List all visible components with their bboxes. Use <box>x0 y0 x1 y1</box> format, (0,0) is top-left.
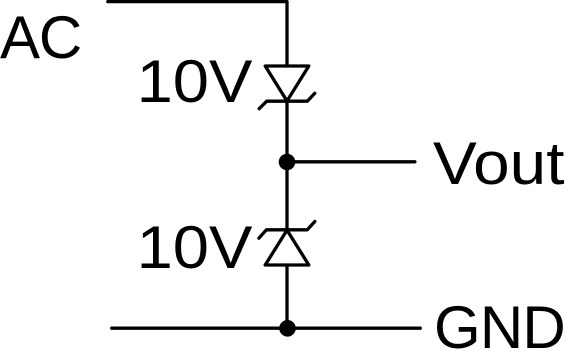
node A junction dot (Vout node) <box>279 154 296 171</box>
node B junction dot (ground node) <box>279 320 296 337</box>
wire ground rail GND <box>112 327 421 330</box>
serif foot of digit 1 (D2 label) <box>143 264 169 268</box>
svg-text:10V: 10V <box>137 214 253 281</box>
zener diode D2 triangle (cathode up) <box>265 230 309 265</box>
wire top from AC to corner and down to D1 <box>108 2 287 66</box>
wire D2 anode down to ground rail <box>285 265 288 328</box>
svg-text:AC: AC <box>0 4 81 71</box>
serif foot of digit 1 (D1 label) <box>143 98 169 102</box>
zener diode D1 cathode bar <box>259 93 315 108</box>
svg-text:Vout: Vout <box>433 130 565 197</box>
zener diode D1 triangle (cathode down) <box>265 66 309 101</box>
zener diode D2 cathode bar <box>259 222 315 239</box>
svg-text:GND: GND <box>434 294 565 351</box>
svg-text:10V: 10V <box>137 48 253 115</box>
wire node A to Vout <box>287 160 415 163</box>
wire D1 cathode to node A and to D2 cathode <box>285 101 288 230</box>
